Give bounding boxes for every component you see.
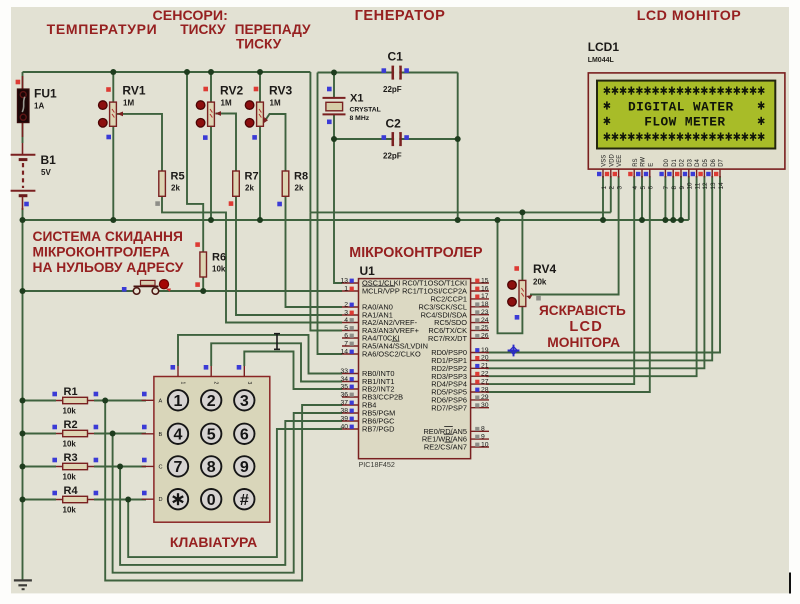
svg-text:ПЕРЕПАДУ: ПЕРЕПАДУ — [235, 22, 311, 37]
R4 left marker — [52, 491, 57, 496]
svg-text:1A: 1A — [34, 102, 44, 111]
svg-text:8: 8 — [481, 426, 485, 433]
svg-text:33: 33 — [340, 368, 348, 375]
svg-text:1M: 1M — [270, 99, 281, 108]
wire: VREF+ continuation down to MCU pin 5 — [310, 212, 342, 330]
svg-text:8 MHz: 8 MHz — [350, 115, 370, 122]
node: GND bus x RV2 — [208, 217, 214, 223]
svg-text:D5: D5 — [703, 158, 709, 166]
wire: R6 feed from top rail — [187, 72, 203, 252]
node: GND bus x LCD D2 — [678, 217, 684, 223]
node: left rail x row C — [20, 464, 26, 470]
wire: OSC2 net top horizontal to C1 — [318, 72, 458, 74]
keypad KLAVIATURA — [142, 366, 270, 522]
svg-text:DIGITAL WATER: DIGITAL WATER — [628, 99, 734, 114]
key 2 — [201, 390, 221, 410]
svg-text:R8: R8 — [294, 171, 308, 183]
node: rail x RV1 — [110, 69, 116, 75]
node: GND bus x LCD D1 — [670, 217, 676, 223]
svg-text:9: 9 — [679, 186, 686, 190]
svg-text:2: 2 — [207, 393, 216, 410]
wire: R2 row B — [23, 433, 57, 435]
RV4 bottom marker — [515, 315, 520, 320]
key 1 — [168, 390, 188, 410]
svg-text:MCLR/VPP: MCLR/VPP — [362, 287, 400, 296]
push button (reset) — [133, 280, 171, 295]
wire: RD5 (pin28) to LCD E — [486, 176, 650, 392]
wire: +5V top rail — [23, 71, 311, 73]
svg-text:ТИСКУ: ТИСКУ — [236, 37, 282, 52]
resistor R4 — [56, 485, 94, 515]
key 3 — [234, 390, 254, 410]
wire: RD3 (pin22) to LCD D4 — [486, 176, 697, 376]
RV1 bottom marker — [106, 135, 111, 140]
wire: RV4 top pin to +5V run — [521, 212, 523, 281]
svg-text:НА НУЛЬОВУ АДРЕСУ: НА НУЛЬОВУ АДРЕСУ — [33, 260, 184, 275]
svg-text:1: 1 — [344, 285, 348, 292]
svg-text:RV3: RV3 — [269, 84, 292, 98]
node: row B x keypad loop — [110, 431, 116, 437]
wire: LCD D1 to GND — [672, 176, 674, 220]
svg-text:2k: 2k — [171, 184, 180, 193]
R2 left marker — [52, 425, 57, 430]
node: rail x R6 feed — [184, 69, 190, 75]
RV2 bottom marker — [203, 135, 208, 140]
svg-text:D2: D2 — [680, 158, 686, 166]
svg-text:#: # — [240, 492, 249, 509]
svg-text:FLOW METER: FLOW METER — [644, 115, 725, 130]
svg-text:8: 8 — [671, 186, 678, 190]
svg-text:5V: 5V — [41, 168, 51, 177]
svg-text:16: 16 — [481, 285, 489, 292]
battery B1 — [11, 143, 57, 210]
resistor R7 — [233, 171, 259, 197]
no-connection crosshair marker — [508, 345, 520, 357]
svg-text:10k: 10k — [63, 506, 77, 515]
svg-text:1: 1 — [601, 186, 608, 190]
scrollbar tick bottom right — [789, 573, 791, 594]
svg-text:СИСТЕМА СКИДАННЯ: СИСТЕМА СКИДАННЯ — [33, 229, 183, 244]
node: OSC1 line x crystal bottom — [331, 136, 337, 142]
keypad row D marker — [142, 491, 147, 496]
R1 right marker — [94, 392, 99, 397]
svg-text:27: 27 — [481, 378, 489, 385]
wire: RD4 (pin27) to LCD RS — [486, 176, 634, 384]
svg-text:18: 18 — [481, 301, 489, 308]
svg-text:36: 36 — [340, 391, 348, 398]
svg-text:17: 17 — [481, 293, 489, 300]
wire: R5 to MCU pin 4 — [162, 196, 342, 322]
capacitor C1 — [383, 50, 403, 95]
node: OSC2 line x crystal top — [331, 70, 337, 76]
node: GND bus x LCD VSS — [600, 217, 606, 223]
svg-text:2k: 2k — [245, 184, 254, 193]
svg-text:4: 4 — [632, 186, 639, 190]
LCD text row 3 FLOW METER — [604, 115, 765, 130]
svg-text:1: 1 — [180, 382, 186, 385]
svg-text:R6: R6 — [212, 252, 226, 264]
wire: LCD RW to GND — [641, 176, 643, 220]
svg-text:2: 2 — [344, 301, 348, 308]
svg-text:CRYSTAL: CRYSTAL — [350, 107, 381, 114]
svg-text:ЯСКРАВІСТЬ: ЯСКРАВІСТЬ — [539, 303, 626, 318]
svg-text:6: 6 — [240, 427, 249, 444]
svg-text:R2: R2 — [64, 419, 78, 431]
wire: RV3 column — [259, 72, 261, 102]
svg-text:R1: R1 — [64, 386, 78, 398]
svg-text:D1: D1 — [672, 158, 678, 166]
svg-text:VEE: VEE — [617, 155, 623, 167]
svg-text:X1: X1 — [350, 93, 363, 105]
svg-text:21: 21 — [481, 363, 489, 370]
svg-text:14: 14 — [340, 348, 348, 355]
wire: +5V drop at right end of rail — [309, 72, 311, 212]
node: GND bus x RV4 loop — [495, 217, 501, 223]
key 0 — [201, 489, 221, 509]
svg-text:RV4: RV4 — [533, 262, 556, 276]
svg-text:RV2: RV2 — [220, 84, 243, 98]
R4 right marker — [94, 491, 99, 496]
wire: LCD D3 riser from GND bus — [688, 176, 690, 220]
svg-text:FU1: FU1 — [34, 87, 57, 101]
wire: LCD D0 to GND — [664, 176, 666, 220]
RV1 top marker — [106, 87, 111, 92]
wire: RV4 bottom loop to GND bus — [498, 220, 523, 333]
keypad row C marker — [142, 458, 147, 463]
R3 right marker — [94, 458, 99, 463]
svg-text:8: 8 — [207, 459, 216, 476]
X1 bottom marker — [327, 120, 332, 125]
key 6 — [234, 424, 254, 444]
potentiometer RV2 — [196, 84, 243, 128]
wire: R3 row C — [23, 466, 57, 468]
svg-text:29: 29 — [481, 394, 489, 401]
svg-text:МОНІТОРА: МОНІТОРА — [547, 335, 620, 350]
svg-text:R5: R5 — [171, 171, 185, 183]
svg-text:3: 3 — [246, 382, 252, 385]
svg-text:ГЕНЕРАТОР: ГЕНЕРАТОР — [355, 8, 446, 24]
C1 right marker — [404, 68, 409, 73]
wire: RD0 (pin19) to LCD D7 — [486, 176, 720, 353]
LCD screen — [597, 81, 775, 149]
svg-text:МІКРОКОНТРОЛЕРА: МІКРОКОНТРОЛЕРА — [33, 244, 170, 259]
svg-text:4: 4 — [174, 427, 183, 444]
svg-text:24: 24 — [481, 317, 489, 324]
svg-text:6: 6 — [648, 186, 655, 190]
svg-text:C: C — [159, 464, 163, 470]
node: R6 x MCLR row — [200, 288, 206, 294]
node: left rail x MCLR row — [20, 288, 26, 294]
LCD text row 4 (asterisks) — [604, 133, 765, 141]
svg-text:VSS: VSS — [602, 155, 608, 167]
svg-text:U1: U1 — [360, 264, 376, 278]
wire: RD2 (pin21) to LCD D5 — [486, 176, 704, 368]
wire: RV2 column — [210, 72, 212, 102]
svg-text:B1: B1 — [41, 153, 57, 167]
svg-text:C1: C1 — [388, 50, 404, 64]
svg-text:14: 14 — [718, 182, 725, 190]
wire: keypad row A loop to MCU pin 37 — [105, 401, 342, 581]
svg-text:2: 2 — [609, 186, 616, 190]
R3 left marker — [52, 458, 57, 463]
svg-text:9: 9 — [240, 459, 249, 476]
key 9 — [234, 456, 254, 476]
svg-text:15: 15 — [481, 277, 489, 284]
wire: keypad row D loop to MCU pin 40 — [128, 429, 342, 557]
svg-text:5: 5 — [640, 186, 647, 190]
svg-text:RB7/PGD: RB7/PGD — [362, 425, 394, 434]
svg-text:19: 19 — [481, 347, 489, 354]
svg-text:LM044L: LM044L — [588, 57, 615, 64]
svg-text:КЛАВІАТУРА: КЛАВІАТУРА — [170, 534, 257, 550]
svg-text:13: 13 — [340, 277, 348, 284]
wire: LCD VSS to GND — [602, 176, 604, 220]
svg-text:2k: 2k — [295, 184, 304, 193]
svg-text:PIC18F452: PIC18F452 — [359, 460, 395, 469]
svg-text:R7: R7 — [245, 171, 259, 183]
svg-text:12: 12 — [702, 182, 709, 190]
svg-text:LCD1: LCD1 — [588, 40, 620, 54]
fuse FU1 — [17, 76, 57, 137]
key 8 — [201, 456, 221, 476]
svg-text:10k: 10k — [63, 473, 77, 482]
R6 bottom marker — [195, 282, 200, 287]
node: rail x RV3 — [257, 69, 263, 75]
wire: keypad column 2 to MCU pin 34 — [211, 343, 342, 381]
node: GND bus x C drop — [455, 217, 461, 223]
wire: R6 bottom to MCLR row — [202, 277, 204, 291]
resistor R3 — [56, 452, 94, 482]
resistor R1 — [56, 386, 94, 416]
svg-text:25: 25 — [481, 325, 489, 332]
svg-text:1: 1 — [174, 393, 183, 410]
node: row D x keypad loop — [125, 497, 131, 503]
svg-text:7: 7 — [663, 186, 670, 190]
R7 bottom marker — [229, 201, 234, 206]
svg-text:39: 39 — [340, 415, 348, 422]
key 5 — [201, 424, 221, 444]
svg-text:3: 3 — [616, 186, 623, 190]
node: row C x keypad loop — [117, 464, 123, 470]
svg-text:10k: 10k — [63, 407, 77, 416]
svg-text:10: 10 — [687, 182, 694, 190]
svg-text:RW: RW — [641, 157, 647, 167]
capacitor C2 — [383, 117, 402, 161]
wire: R7 to MCU pin 3 — [236, 196, 342, 315]
svg-text:5: 5 — [207, 427, 216, 444]
svg-text:ТИСКУ: ТИСКУ — [180, 22, 226, 37]
svg-text:D6: D6 — [711, 158, 717, 166]
svg-text:0: 0 — [207, 492, 216, 509]
wire: VDD riser — [610, 176, 612, 212]
resistor R5 — [159, 171, 185, 197]
wire: keypad row C loop to MCU pin 39 — [120, 421, 342, 565]
C2 left marker — [382, 135, 387, 140]
RV3 bottom marker — [252, 135, 257, 140]
keypad row A marker — [142, 392, 147, 397]
svg-text:3: 3 — [344, 309, 348, 316]
wire: LCD VEE down to RV4 wiper — [530, 176, 619, 295]
svg-text:4: 4 — [344, 317, 348, 324]
svg-text:D3: D3 — [687, 158, 693, 166]
svg-text:C2: C2 — [386, 117, 402, 131]
svg-text:RE2/CS/AN7: RE2/CS/AN7 — [424, 443, 467, 452]
X1 top marker — [327, 87, 332, 92]
potentiometer RV3 — [245, 84, 292, 128]
svg-text:RV1: RV1 — [122, 84, 145, 98]
wire: RV1 wiper to R5 — [117, 114, 162, 171]
keypad col 1 marker — [171, 365, 176, 370]
resistor R8 — [282, 171, 308, 197]
button left marker — [122, 287, 127, 292]
wire: RV1 column — [112, 72, 114, 102]
svg-text:7: 7 — [174, 459, 183, 476]
svg-text:RS: RS — [633, 158, 639, 166]
text cursor I-beam — [274, 334, 280, 350]
svg-text:10k: 10k — [212, 265, 226, 274]
key * — [168, 489, 188, 509]
svg-text:МІКРОКОНТРОЛЕР: МІКРОКОНТРОЛЕР — [349, 245, 483, 261]
node: left rail x row A — [20, 398, 26, 404]
svg-text:20: 20 — [481, 355, 489, 362]
keypad col 3 marker — [237, 365, 242, 370]
node: GND bus x LCD RW — [639, 217, 645, 223]
crystal X1 — [323, 93, 381, 123]
svg-text:35: 35 — [340, 383, 348, 390]
svg-text:9: 9 — [481, 433, 485, 440]
svg-text:ТЕМПЕРАТУРИ: ТЕМПЕРАТУРИ — [47, 21, 158, 37]
resistor R2 — [56, 419, 94, 449]
svg-text:D: D — [159, 497, 163, 503]
resistor R6 — [200, 252, 226, 278]
wire: keypad column 3 to MCU pin 35 — [244, 352, 342, 390]
RV3 top marker — [254, 87, 259, 92]
svg-text:34: 34 — [340, 376, 348, 383]
wire: GND bus — [23, 219, 689, 221]
svg-text:30: 30 — [481, 402, 489, 409]
svg-text:23: 23 — [481, 309, 489, 316]
node: GND bus x RV1 — [110, 217, 116, 223]
key 4 — [168, 424, 188, 444]
svg-text:22: 22 — [481, 371, 489, 378]
svg-text:22pF: 22pF — [383, 85, 402, 94]
svg-text:3: 3 — [240, 393, 249, 410]
battery bottom marker — [24, 202, 29, 207]
svg-text:28: 28 — [481, 386, 489, 393]
node: left rail x row B — [20, 431, 26, 437]
svg-text:11: 11 — [694, 182, 701, 189]
wire: R8 to MCU pin 2 — [286, 196, 343, 307]
wire: MCLR row — [23, 290, 134, 292]
svg-text:5: 5 — [344, 325, 348, 332]
node: left rail x row D — [20, 497, 26, 503]
svg-text:1M: 1M — [123, 99, 134, 108]
wire: +5V horizontal run to LCD VDD — [310, 211, 610, 213]
R1 left marker — [52, 392, 57, 397]
node: +5V run x RV4 top — [519, 209, 525, 215]
svg-text:1M: 1M — [221, 99, 232, 108]
svg-text:38: 38 — [340, 407, 348, 414]
svg-text:2: 2 — [213, 382, 219, 385]
potentiometer RV4 — [508, 262, 557, 307]
svg-text:LCD: LCD — [569, 319, 603, 335]
svg-text:D4: D4 — [695, 158, 701, 166]
svg-text:R3: R3 — [64, 452, 78, 464]
potentiometer RV1 — [99, 84, 146, 128]
svg-text:D0: D0 — [664, 158, 670, 166]
R5 bottom marker — [155, 201, 160, 206]
svg-text:LCD МОНІТОР: LCD МОНІТОР — [637, 8, 741, 24]
svg-text:6: 6 — [344, 332, 348, 339]
wire: RV3 wiper to R8 — [265, 114, 286, 171]
node: C1 drop x C2 row — [455, 136, 461, 142]
key 7 — [168, 456, 188, 476]
svg-text:A: A — [159, 398, 163, 404]
svg-text:RA6/OSC2/CLKO: RA6/OSC2/CLKO — [362, 350, 421, 359]
wire: R1 row A — [23, 400, 57, 402]
svg-text:RD7/PSP7: RD7/PSP7 — [431, 403, 467, 412]
svg-text:13: 13 — [710, 182, 717, 190]
C2 right marker — [404, 135, 409, 140]
svg-text:37: 37 — [340, 399, 348, 406]
svg-text:26: 26 — [481, 333, 489, 340]
RV4 wiper marker — [536, 296, 541, 301]
node: GND bus x RV3 — [257, 217, 263, 223]
svg-text:10k: 10k — [63, 440, 77, 449]
node: GND bus x battery — [20, 217, 26, 223]
svg-text:R4: R4 — [64, 485, 79, 497]
R2 right marker — [94, 425, 99, 430]
LCD display LCD1 LM044L — [588, 40, 785, 190]
svg-text:D7: D7 — [719, 158, 725, 166]
RV4 top marker — [514, 266, 519, 271]
wire: RD1 (pin20) to LCD D6 — [486, 176, 712, 360]
wire: C1/C2 right-side drop to GND — [457, 73, 459, 221]
keypad col 2 marker — [204, 365, 209, 370]
svg-text:B: B — [159, 432, 163, 438]
wire: R4 row D — [23, 499, 57, 501]
svg-text:20k: 20k — [533, 278, 547, 287]
LCD text row 2 DIGITAL WATER — [604, 99, 765, 114]
RV2 top marker — [203, 87, 208, 92]
wire: left supply column (battery/fuse rail) — [22, 72, 24, 89]
svg-text:40: 40 — [340, 423, 348, 430]
wire: OSC1 row through C2 — [334, 138, 458, 140]
wire: crystal column / OSC1 to pin 13 — [333, 73, 335, 99]
svg-text:E: E — [648, 163, 654, 167]
node: GND bus x LCD D0 — [662, 217, 668, 223]
svg-text:RC7/RX/DT: RC7/RX/DT — [428, 334, 467, 343]
wire: keypad row B loop to MCU pin 38 — [113, 413, 342, 573]
ground (bottom left) — [14, 580, 32, 589]
FU1 top marker — [16, 80, 21, 85]
LCD text row 1 (asterisks) — [604, 87, 765, 95]
microcontroller U1 PIC18F452 — [340, 264, 489, 469]
wire: OSC2 net vertical to MCU pin 14 — [318, 73, 343, 355]
node: rail x RV2 — [208, 69, 214, 75]
svg-text:VDD: VDD — [609, 153, 615, 166]
key # — [234, 489, 254, 509]
svg-text:10: 10 — [481, 441, 489, 448]
R6 top marker — [195, 242, 200, 247]
wire: keypad column 1 to MCU pin 33 — [178, 335, 342, 374]
svg-text:22pF: 22pF — [383, 152, 402, 161]
wire: LCD D2 to GND — [680, 176, 682, 220]
node: row A x keypad loop — [102, 398, 108, 404]
wire: RV2 wiper to R7 — [216, 114, 237, 172]
svg-text:7: 7 — [344, 340, 348, 347]
R8 bottom marker — [277, 202, 282, 207]
